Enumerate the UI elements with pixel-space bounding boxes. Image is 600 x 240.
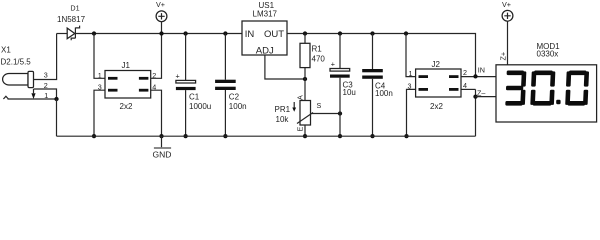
wire PR1 wiper S xyxy=(312,113,341,115)
svg-text:3: 3 xyxy=(408,82,412,91)
svg-text:E: E xyxy=(296,127,305,132)
pin bar J1-4 xyxy=(139,89,149,92)
power V+ (right) xyxy=(502,10,513,21)
svg-text:1: 1 xyxy=(98,71,102,80)
svg-text:1N5817: 1N5817 xyxy=(57,15,86,24)
connector X1 cap xyxy=(28,71,34,87)
wiper diagonal PR1 xyxy=(297,113,313,124)
node C1 bottom xyxy=(183,134,187,138)
svg-text:0330x: 0330x xyxy=(537,50,559,59)
node V+ / J1 pin2 xyxy=(159,31,163,35)
svg-text:D2.1/5.5: D2.1/5.5 xyxy=(1,58,32,67)
wire C4 bottom lead xyxy=(372,79,374,136)
svg-text:OUT: OUT xyxy=(264,29,284,40)
node C1 top xyxy=(183,31,187,35)
wire J2 pin 2 to IN xyxy=(461,76,496,78)
wire V+ to module Z+ xyxy=(507,21,509,65)
wire X1 pin 2 xyxy=(34,89,57,99)
wire J1 pin 4 down to ground rail xyxy=(151,90,162,136)
wire PR1 top lead xyxy=(304,79,306,101)
svg-text:2x2: 2x2 xyxy=(430,102,443,111)
pin bar J1-3 xyxy=(108,89,118,92)
svg-text:IN: IN xyxy=(245,29,255,40)
power V+ (left) xyxy=(156,11,167,22)
wire C3 bottom lead xyxy=(339,78,341,137)
node R1 top xyxy=(303,31,307,35)
svg-text:470: 470 xyxy=(312,54,326,63)
potentiometer PR1 body xyxy=(300,101,311,126)
svg-text:10u: 10u xyxy=(343,88,356,97)
svg-text:GND: GND xyxy=(153,150,172,160)
wire ADJ xyxy=(265,55,305,79)
svg-text:10k: 10k xyxy=(276,115,290,124)
svg-text:C1: C1 xyxy=(189,92,200,101)
svg-text:X1: X1 xyxy=(1,46,11,55)
wire C3 top lead xyxy=(339,34,341,69)
wire R1 top lead xyxy=(304,34,306,44)
svg-text:+: + xyxy=(176,72,180,81)
svg-text:2x2: 2x2 xyxy=(120,102,133,111)
module MOD1 box xyxy=(496,65,597,122)
adjust arrow PR1 xyxy=(293,102,295,109)
jumper J1 box xyxy=(105,71,151,99)
svg-text:1000u: 1000u xyxy=(189,102,211,111)
svg-text:C2: C2 xyxy=(229,92,240,101)
node Z- junction xyxy=(473,94,477,98)
regulator US1 LM317 box xyxy=(242,21,287,55)
display digit 0 (second) xyxy=(565,71,589,106)
svg-text:IN: IN xyxy=(478,65,485,74)
wire J2 pin 1 riser xyxy=(406,34,416,77)
node ADJ junction xyxy=(303,77,307,81)
svg-text:2: 2 xyxy=(463,68,467,77)
node C3 top xyxy=(338,31,342,35)
svg-text:PR1: PR1 xyxy=(275,105,291,114)
node X1 pin1/pin2 junction xyxy=(54,97,58,101)
svg-text:2: 2 xyxy=(44,81,48,90)
ground symbol GND xyxy=(161,136,163,147)
tip mark X1 pin 1 xyxy=(3,96,8,99)
node J1 pin1 top rail xyxy=(92,31,96,35)
resistor R1 body xyxy=(300,43,310,67)
svg-text:V+: V+ xyxy=(156,0,165,9)
wire ground rail xyxy=(57,135,476,137)
display digit 0 (first) xyxy=(530,71,555,106)
wire X1 pin 1 xyxy=(8,98,57,100)
svg-text:+: + xyxy=(331,60,335,69)
capacitor C2 xyxy=(215,80,236,83)
pin bar J1-2 xyxy=(139,77,149,80)
wire J2 pin 4 jog xyxy=(461,88,476,90)
node C4 top xyxy=(370,31,374,35)
node wiper to C3 net xyxy=(338,111,342,115)
capacitor C4 xyxy=(362,69,383,72)
wire C4 top lead xyxy=(372,34,374,70)
svg-text:ADJ: ADJ xyxy=(256,45,274,56)
node J1 pin4 ground xyxy=(159,134,163,138)
wire C2 top lead xyxy=(224,34,226,80)
svg-text:1: 1 xyxy=(409,69,413,78)
wire Z- to module xyxy=(476,96,497,98)
svg-text:V+: V+ xyxy=(502,0,511,9)
wire C2 bottom lead xyxy=(224,90,226,136)
node C2 top xyxy=(223,31,227,35)
diode D1 1N5817 xyxy=(67,28,75,39)
wire J1 pin 2 riser to top rail xyxy=(151,34,162,79)
svg-text:J1: J1 xyxy=(122,61,131,70)
node J1 pin3 ground xyxy=(92,134,96,138)
svg-text:S: S xyxy=(317,101,322,110)
wire PR1 bottom lead xyxy=(304,125,306,136)
wire OUT rail xyxy=(287,34,476,77)
node C4 bottom xyxy=(370,134,374,138)
svg-text:Z+: Z+ xyxy=(499,52,508,61)
wire X1 pin 3 to top rail xyxy=(34,34,57,80)
svg-text:1: 1 xyxy=(44,91,48,100)
connector X1 barrel xyxy=(3,74,28,86)
node C3 bottom xyxy=(338,134,342,138)
wire ground riser to Z- xyxy=(475,89,477,136)
wire D1 anode stub xyxy=(57,33,68,35)
pin bar J1-1 xyxy=(108,77,118,80)
svg-text:3: 3 xyxy=(44,71,48,80)
wire C1 top lead xyxy=(185,34,187,81)
svg-text:R1: R1 xyxy=(312,45,323,54)
node IN junction xyxy=(473,74,477,78)
node PR1 ground xyxy=(303,134,307,138)
wire V+ stub xyxy=(161,22,163,34)
wire C1 bottom lead xyxy=(185,90,187,136)
node J2 pin1 top rail xyxy=(404,31,408,35)
node J2 pin3 ground xyxy=(404,134,408,138)
wire J1 pin 3 to ground rail xyxy=(94,90,105,136)
svg-text:LM317: LM317 xyxy=(253,10,278,19)
node C2 bottom xyxy=(223,134,227,138)
wire J2 pin 3 to ground rail xyxy=(407,89,416,136)
svg-text:Z–: Z– xyxy=(477,89,485,98)
jumper J2 box xyxy=(416,69,461,97)
wire X1 junction down to ground rail xyxy=(56,99,58,136)
svg-text:100n: 100n xyxy=(229,102,247,111)
svg-text:3: 3 xyxy=(98,83,102,92)
wire R1 bottom lead xyxy=(304,68,306,79)
pin bar J2-1 xyxy=(419,75,429,78)
svg-text:4: 4 xyxy=(463,81,467,90)
display decimal point xyxy=(556,100,560,104)
wire J1 pin 1 riser xyxy=(94,34,105,79)
svg-text:J2: J2 xyxy=(432,60,441,69)
svg-text:100n: 100n xyxy=(375,89,393,98)
wire top rail D1 to US1 xyxy=(76,33,242,35)
display digit 3 xyxy=(505,71,526,106)
switch arrow X1 pin 2 xyxy=(33,89,35,93)
pin bar J2-2 xyxy=(449,75,459,78)
pin bar J2-3 xyxy=(419,88,429,91)
pin bar J2-4 xyxy=(449,88,459,91)
svg-text:A: A xyxy=(296,95,305,100)
svg-text:D1: D1 xyxy=(70,4,79,13)
